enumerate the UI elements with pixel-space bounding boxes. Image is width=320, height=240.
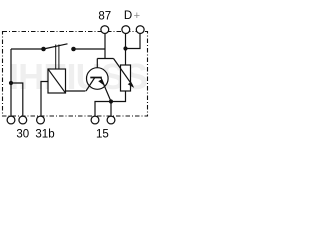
wire: + terminal L-branch — [126, 33, 141, 49]
svg-text:D: D — [124, 10, 132, 22]
wiper arrowhead — [128, 82, 135, 88]
terminal + — [136, 26, 144, 34]
collector lead — [86, 78, 95, 92]
wire: J2 to 15 left — [95, 102, 111, 116]
switch fixed node — [71, 47, 76, 52]
terminal 30b — [19, 116, 27, 124]
wire: switch output to 87 riser — [74, 48, 106, 50]
svg-text:87: 87 — [98, 11, 111, 23]
wire: base drop into transistor — [96, 59, 98, 78]
housing boundary (dash-dot box) — [3, 32, 148, 117]
wire: J2 to resistor bottom — [111, 91, 126, 102]
terminal 15 right — [107, 116, 115, 124]
relay coil K1 — [48, 69, 66, 93]
wire: 87 terminal drop — [104, 33, 106, 49]
wire: 30 feed up-left vertical — [10, 49, 12, 116]
wire: 31b to coil left — [41, 82, 48, 116]
wire: base rail horizontal — [97, 58, 113, 60]
node J2 — [109, 99, 113, 103]
base bar — [90, 77, 102, 79]
svg-text:30: 30 — [16, 129, 29, 141]
resistor R1 (variable) — [121, 65, 131, 91]
svg-text:+: + — [134, 10, 140, 22]
wire: switch feed horizontal — [11, 48, 44, 50]
actuator link (double line) — [55, 45, 57, 70]
node J1 — [9, 81, 13, 85]
switch contact blade — [44, 44, 68, 49]
wire: J2 down to 15 right — [110, 102, 112, 116]
emitter arrowhead — [98, 79, 105, 86]
terminal 31b — [37, 116, 45, 124]
terminal 87 — [101, 26, 109, 34]
node J3 — [123, 46, 127, 50]
wire: riser to base rail — [104, 49, 106, 59]
wire: coil bottom-right to collector — [66, 90, 86, 92]
terminal 15 left — [91, 116, 99, 124]
svg-text:31b: 31b — [35, 129, 54, 141]
wiper arrow diagonal — [114, 59, 133, 86]
terminal 30 — [7, 116, 15, 124]
terminal D+ — [122, 26, 130, 34]
wire: D+ drop to resistor top — [125, 33, 127, 65]
svg-text:15: 15 — [96, 129, 109, 141]
switch pivot node — [41, 47, 46, 52]
emitter lead — [101, 78, 111, 102]
transistor Q1 — [87, 68, 109, 90]
wire: branch J1 to terminal 30b — [11, 83, 23, 116]
